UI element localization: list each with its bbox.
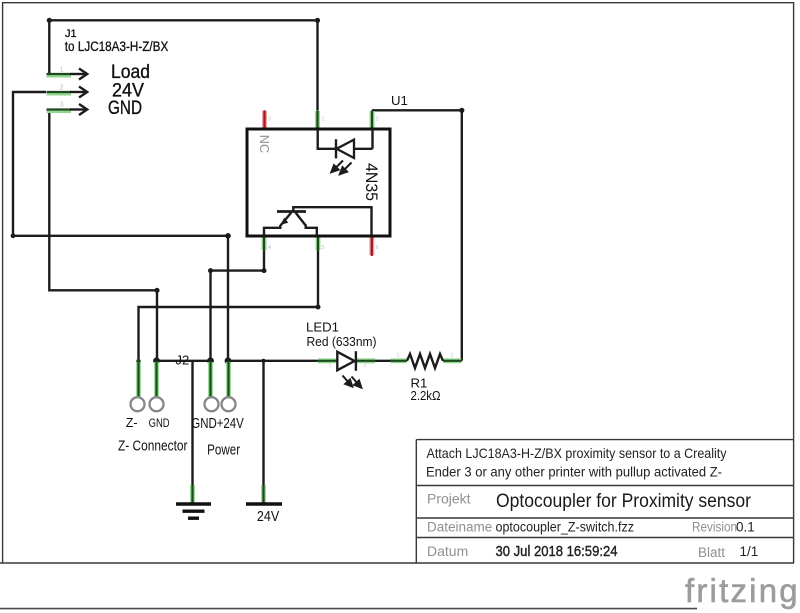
svg-text:24V: 24V bbox=[257, 509, 280, 525]
svg-text:GND: GND bbox=[149, 416, 170, 430]
svg-text:GND: GND bbox=[108, 97, 142, 119]
svg-text:Revision: Revision bbox=[692, 520, 737, 535]
svg-text:Red (633nm): Red (633nm) bbox=[307, 334, 377, 349]
svg-text:fritzing: fritzing bbox=[685, 572, 800, 609]
svg-text:J2: J2 bbox=[176, 353, 190, 368]
svg-text:1/1: 1/1 bbox=[740, 544, 759, 559]
svg-text:3: 3 bbox=[60, 102, 64, 109]
svg-text:6: 6 bbox=[376, 245, 379, 251]
svg-text:4: 4 bbox=[268, 245, 271, 251]
svg-text:Ender 3 or any other printer w: Ender 3 or any other printer with pullup… bbox=[426, 465, 722, 480]
svg-text:1: 1 bbox=[397, 353, 400, 359]
svg-text:Z-: Z- bbox=[126, 416, 138, 430]
svg-text:Z- Connector: Z- Connector bbox=[118, 439, 188, 455]
svg-text:GND+24V: GND+24V bbox=[191, 416, 244, 432]
svg-text:1: 1 bbox=[329, 363, 332, 369]
svg-text:2: 2 bbox=[364, 363, 367, 369]
svg-text:2: 2 bbox=[60, 85, 64, 92]
svg-text:Attach LJC18A3-H-Z/BX proximit: Attach LJC18A3-H-Z/BX proximity sensor t… bbox=[427, 446, 727, 461]
svg-text:Power: Power bbox=[207, 443, 240, 459]
svg-text:2: 2 bbox=[451, 353, 454, 359]
svg-text:30 Jul 2018 16:59:24: 30 Jul 2018 16:59:24 bbox=[496, 544, 618, 560]
svg-text:Projekt: Projekt bbox=[427, 491, 471, 507]
svg-text:4N35: 4N35 bbox=[362, 163, 381, 201]
svg-text:Dateiname: Dateiname bbox=[427, 520, 492, 535]
svg-text:Blatt: Blatt bbox=[698, 545, 725, 560]
svg-text:NC: NC bbox=[257, 135, 271, 153]
svg-text:5: 5 bbox=[322, 245, 325, 251]
svg-text:to LJC18A3-H-Z/BX: to LJC18A3-H-Z/BX bbox=[65, 39, 169, 54]
svg-text:Optocoupler for Proximity sens: Optocoupler for Proximity sensor bbox=[496, 491, 752, 512]
svg-text:U1: U1 bbox=[391, 93, 408, 108]
svg-text:3: 3 bbox=[268, 117, 271, 123]
svg-text:LED1: LED1 bbox=[306, 320, 339, 335]
svg-text:optocoupler_Z-switch.fzz: optocoupler_Z-switch.fzz bbox=[496, 520, 635, 535]
svg-text:1: 1 bbox=[60, 67, 64, 74]
svg-text:0.1: 0.1 bbox=[736, 520, 755, 535]
svg-text:Datum: Datum bbox=[427, 543, 468, 559]
svg-text:2.2kΩ: 2.2kΩ bbox=[411, 388, 441, 403]
svg-text:1: 1 bbox=[322, 117, 325, 123]
svg-text:2: 2 bbox=[376, 117, 379, 123]
